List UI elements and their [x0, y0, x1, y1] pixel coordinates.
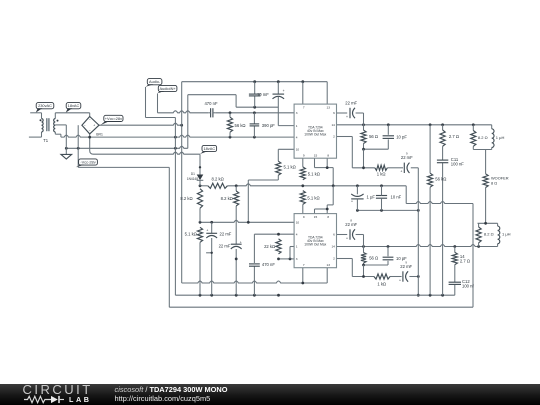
- label 56k input: [235, 123, 246, 128]
- junction BR1 bottom y137: [88, 136, 91, 139]
- svg-text:5.1 kΩ: 5.1 kΩ: [307, 195, 319, 200]
- label C12: [462, 279, 474, 289]
- svg-text:22 mF: 22 mF: [401, 155, 413, 160]
- wire stby y222.3: [200, 220, 294, 222]
- label 14 2.7ohm: [460, 254, 470, 263]
- inductor 1uH block1: [492, 129, 494, 148]
- label 22mF bootstrap1: [345, 100, 357, 105]
- svg-text:D1: D1: [191, 172, 195, 176]
- wire IC1 pin15 jog: [315, 158, 328, 167]
- junction output2 dots: [362, 245, 480, 248]
- resistor 56k fb: [428, 173, 433, 187]
- svg-text:4: 4: [296, 232, 298, 236]
- svg-text:8.2 kΩ: 8.2 kΩ: [221, 196, 233, 201]
- label 5.1k b: [308, 171, 320, 176]
- transformer T1 secondary coil: [54, 119, 56, 132]
- capacitor 470nF input: [208, 108, 215, 117]
- capacitor electrolytic filter: [273, 89, 285, 99]
- capacitor 10pF zobel2: [383, 257, 394, 260]
- wire +Vcc x181.7 to bus1: [181, 125, 183, 283]
- svg-text:2: 2: [333, 135, 335, 139]
- wire stby col2: [199, 242, 201, 295]
- capacitor 22mF fb1: [400, 163, 409, 174]
- cap22a minus dash: [206, 252, 213, 254]
- label 1uH block2: [502, 232, 511, 237]
- junction mute rail: [199, 184, 383, 187]
- capacitor 22mF bootstrap2: [346, 229, 355, 240]
- label 22mF fb2: [400, 261, 412, 269]
- resistor 8.2ohm block2: [476, 227, 481, 243]
- svg-text:100 nF: 100 nF: [451, 162, 464, 167]
- wire gnd y148: [66, 95, 188, 149]
- wire zobel2b col: [454, 247, 456, 296]
- wire input y112.8 left: [158, 111, 209, 113]
- flag 18vAC D1: [200, 145, 217, 154]
- wire ground bus y137: [61, 135, 294, 137]
- flag -Vcc-28v: [76, 159, 98, 167]
- svg-text:56 Ω: 56 Ω: [369, 256, 378, 261]
- wire bus3 -Vcc: [169, 306, 473, 308]
- svg-text:Audio-: Audio-: [149, 79, 161, 84]
- svg-text:T1: T1: [43, 138, 49, 143]
- svg-text:5.1 kΩ: 5.1 kΩ: [284, 164, 296, 169]
- label 1k fb2: [377, 281, 386, 286]
- wire caps-neg y94.7: [188, 95, 236, 108]
- svg-text:8.2 kΩ: 8.2 kΩ: [211, 177, 223, 182]
- label 470nF gnd2: [262, 262, 275, 267]
- svg-text:100W Out Max: 100W Out Max: [304, 133, 326, 137]
- ground: [61, 125, 72, 159]
- label 1uH block1: [496, 135, 505, 140]
- svg-text:14: 14: [331, 245, 335, 249]
- wire bootstrap1: [337, 113, 364, 125]
- resistor 5.1k a: [276, 161, 281, 175]
- svg-text:9: 9: [303, 215, 305, 219]
- svg-text:13: 13: [326, 263, 330, 267]
- wire IC2 pin3 row: [279, 258, 295, 260]
- junction ref node: [356, 209, 420, 212]
- capacitor 22mF bootstrap1: [346, 108, 355, 119]
- svg-text:+: +: [283, 89, 285, 93]
- wire fcap1 col: [254, 82, 256, 108]
- junction bus1 pin7: [301, 282, 304, 285]
- svg-text:3: 3: [296, 111, 298, 115]
- svg-text:1 kΩ: 1 kΩ: [377, 171, 386, 176]
- wire secondary center tap: [55, 124, 66, 126]
- wire -Vcc corner to bus3: [168, 167, 170, 307]
- wire 390p col: [253, 113, 255, 137]
- junction fb2: [362, 275, 420, 278]
- svg-text:56 kΩ: 56 kΩ: [435, 177, 446, 182]
- label 8.2k horizontal: [211, 177, 223, 182]
- junction fb1: [362, 166, 365, 169]
- wire 230vAC stub: [30, 113, 41, 119]
- junction pin3 row: [277, 258, 291, 261]
- resistor 8.2k D1: [197, 189, 202, 209]
- label 1k fb1: [377, 171, 386, 176]
- junction rail dots: [253, 80, 304, 83]
- wire -Vs jog right: [406, 186, 473, 307]
- label 8.2k stby: [221, 196, 233, 201]
- capacitor 470nF gnd2: [249, 264, 260, 266]
- svg-text:10: 10: [296, 148, 300, 152]
- wire zobel1 to fb: [363, 149, 365, 168]
- resistor 8.2k stby: [234, 191, 239, 206]
- svg-text:56 Ω: 56 Ω: [369, 134, 378, 139]
- wire +Vcc top rail y81.7: [182, 82, 328, 126]
- svg-text:470 nF: 470 nF: [204, 101, 217, 106]
- flag +Vcc=28v: [101, 115, 123, 125]
- wire +Vcc from BR1: [99, 123, 182, 125]
- wire secondary top: [55, 113, 89, 119]
- transformer T1 core: [47, 118, 49, 131]
- wire stby col: [199, 208, 201, 222]
- flag AudioIN+: [158, 85, 177, 93]
- svg-text:5.1 kΩ: 5.1 kΩ: [308, 171, 320, 176]
- junction gnd y148: [65, 147, 177, 150]
- capacitor 10pF zobel1: [383, 136, 394, 139]
- svg-text:56 kΩ: 56 kΩ: [235, 123, 246, 128]
- wire IC2 pin9 rise: [302, 204, 304, 213]
- op-amp U1 TDA7294: [294, 104, 336, 158]
- svg-text:1: 1: [296, 245, 298, 249]
- resistor 5.1k c: [300, 191, 305, 205]
- svg-text:100W Out Max: 100W Out Max: [304, 243, 326, 247]
- transformer T1 primary coil: [42, 119, 44, 132]
- svg-text:1 μF: 1 μF: [367, 195, 376, 200]
- capacitor 22mF stby: [206, 229, 217, 238]
- svg-text:~: ~: [89, 129, 91, 133]
- label 8.2ohm block1: [478, 135, 488, 140]
- junction block2 top: [484, 222, 487, 225]
- resistor 56ohm zobel2: [361, 253, 366, 264]
- svg-text:5.1 kΩ: 5.1 kΩ: [185, 231, 197, 236]
- svg-text:+: +: [346, 236, 348, 240]
- svg-text:7: 7: [303, 105, 305, 109]
- svg-text:15: 15: [314, 215, 318, 219]
- flag Audio-: [146, 79, 162, 87]
- svg-text:22 mF: 22 mF: [345, 100, 357, 105]
- wire output1 y124.8: [337, 124, 492, 126]
- label 390pF: [262, 123, 275, 128]
- wire AudioIN+ drop: [157, 94, 159, 113]
- wire IC2 pin1 strap: [290, 247, 294, 259]
- capacitor 10mF filter: [249, 94, 261, 96]
- wire input y112.8 right: [215, 112, 294, 114]
- label 5.1k stby: [185, 231, 197, 236]
- wire IC1 pin1 row: [278, 97, 294, 126]
- label C11: [451, 157, 464, 167]
- wire IC2 pin15 jog: [315, 209, 328, 214]
- capacitor C12 100nF: [449, 282, 461, 284]
- wire zobel2 to fb: [363, 265, 365, 277]
- wire IC1 pin10 row: [278, 149, 294, 161]
- wire IC2 pin4 row: [254, 234, 294, 263]
- label 56k fb: [435, 177, 446, 182]
- junction y137 x175: [174, 136, 177, 139]
- label 22mF mute: [219, 243, 231, 248]
- resistor 5.1k stby: [197, 227, 202, 242]
- junction stby: [199, 221, 250, 224]
- svg-text:14: 14: [331, 123, 335, 127]
- wire IC2 pin2 fb: [337, 259, 353, 277]
- bridge rectifier BR1: [82, 117, 99, 134]
- wire 18vAC-D1 y154.2: [94, 152, 200, 154]
- capacitor C11 100nF: [437, 160, 448, 163]
- label BR1: [96, 133, 103, 137]
- label 8.2k D1: [180, 196, 192, 201]
- wire bootstrap2: [337, 235, 364, 247]
- resistor 2.7ohm zobel2b: [452, 252, 457, 264]
- svg-text:2.7 Ω: 2.7 Ω: [449, 134, 459, 139]
- junction output1 dots: [362, 123, 475, 126]
- svg-text:18vAC: 18vAC: [203, 146, 215, 151]
- svg-text:15: 15: [314, 153, 318, 157]
- wire 56k1 col: [229, 113, 231, 137]
- svg-text:+: +: [346, 115, 348, 119]
- svg-text:9: 9: [303, 153, 305, 157]
- label 22mF fb1: [401, 152, 413, 160]
- wire caps bottom y107.2: [236, 106, 278, 108]
- wire fb1 y167.8: [352, 167, 418, 169]
- svg-text:−: −: [84, 123, 86, 127]
- label 2.7ohm: [449, 134, 459, 139]
- footer title text: [115, 386, 228, 404]
- wire block1 legs: [473, 125, 491, 150]
- wire 56k col: [429, 125, 431, 295]
- wire woofer col: [485, 150, 487, 224]
- label 56ohm zobel1: [369, 134, 378, 139]
- svg-text:4: 4: [296, 135, 298, 139]
- wire BR1 minus drop: [77, 125, 79, 167]
- resistor 56ohm zobel1: [361, 130, 366, 143]
- svg-text:1N4148: 1N4148: [187, 177, 198, 181]
- label T1: [43, 138, 49, 143]
- label 10pF zobel2: [396, 256, 407, 261]
- wire IC1 pin8 drop: [327, 158, 333, 186]
- wire IC2 pin8 rise: [327, 186, 333, 214]
- svg-text:+: +: [351, 200, 353, 204]
- svg-text:18vAC: 18vAC: [68, 103, 80, 108]
- svg-text:470 nF: 470 nF: [262, 262, 275, 267]
- label 10pF zobel1: [396, 134, 407, 139]
- resistor speaker WOOFER: [483, 174, 488, 188]
- svg-text:22 mF: 22 mF: [400, 264, 412, 269]
- op-amp U2 TDA7294: [294, 214, 336, 268]
- capacitor 22mF fb2: [399, 271, 408, 282]
- wire D1 column top: [199, 154, 201, 174]
- junction d1 vcc: [199, 166, 201, 168]
- junction bus2 dots: [199, 294, 444, 297]
- svg-text:8: 8: [327, 215, 329, 219]
- label D1: [187, 172, 198, 181]
- svg-text:+: +: [399, 278, 401, 282]
- wire fb2 y276.5: [352, 276, 418, 278]
- wire mute rail y185.8: [200, 185, 208, 187]
- junction input x230 x254: [229, 111, 256, 114]
- label 22mF bootstrap2: [345, 218, 357, 227]
- svg-text:BR1: BR1: [96, 133, 103, 137]
- svg-text:7: 7: [303, 263, 305, 267]
- wire zobel1b col: [442, 125, 444, 295]
- diode D1 1N4148: [197, 175, 204, 181]
- svg-text:22 mF: 22 mF: [220, 232, 232, 237]
- wire output2 y246.5: [337, 245, 498, 247]
- wire D1 column mid: [199, 180, 201, 186]
- wire Audio- route: [146, 87, 176, 118]
- wire IC2 pin13 drop: [326, 267, 328, 283]
- wire -Vcc y167.4: [78, 166, 169, 168]
- wire ref node y210.4: [357, 209, 418, 211]
- svg-text:10 nF: 10 nF: [391, 195, 402, 200]
- resistor 22k: [276, 239, 281, 254]
- junction IC1 pin8: [326, 166, 329, 169]
- junction zobel2: [362, 264, 365, 267]
- junction fb gnd: [417, 294, 420, 297]
- svg-text:230vAC: 230vAC: [38, 103, 52, 108]
- label 470nF input: [204, 101, 217, 106]
- wire zobel1 mid: [364, 125, 389, 149]
- wire Audio- down to bus2: [174, 118, 176, 296]
- wire IC1 pin13 drop: [326, 82, 328, 104]
- wire BR1 bottom drop: [90, 134, 94, 154]
- label 5.1k a: [284, 164, 296, 169]
- svg-text:8.2 kΩ: 8.2 kΩ: [180, 196, 192, 201]
- svg-text:AudioIN+: AudioIN+: [160, 86, 177, 91]
- wire IC1 pin9 drop: [302, 158, 304, 167]
- wire cap22a col: [211, 222, 213, 295]
- svg-text:8 Ω: 8 Ω: [491, 181, 497, 186]
- junction y137 x230: [229, 136, 256, 139]
- svg-text:~: ~: [89, 118, 91, 122]
- label 10mF: [257, 92, 269, 97]
- svg-text:6: 6: [333, 233, 335, 237]
- capacitor 390pF: [250, 124, 260, 126]
- svg-text:1 μH: 1 μH: [502, 232, 511, 237]
- svg-text:+: +: [400, 170, 402, 174]
- flag 230vAC: [36, 103, 54, 113]
- junction +Vcc x181.7: [180, 124, 183, 127]
- CircuitLab logo: [22, 385, 96, 404]
- svg-text:6: 6: [333, 111, 335, 115]
- wire 82k3 col: [235, 186, 237, 295]
- svg-text:+: +: [240, 240, 242, 244]
- svg-text:2.7 Ω: 2.7 Ω: [460, 259, 470, 264]
- flag 18vAC T1: [66, 103, 81, 113]
- svg-text:100 nf: 100 nf: [462, 284, 474, 289]
- svg-text:13: 13: [326, 105, 330, 109]
- label 5.1k c: [307, 195, 319, 200]
- svg-text:2: 2: [333, 257, 335, 261]
- svg-text:10: 10: [296, 221, 300, 225]
- junction x236 y258.9: [235, 258, 238, 261]
- wire fcap2 col: [277, 82, 279, 94]
- wire 470n2 col: [253, 266, 255, 295]
- capacitor 1uF ref: [351, 186, 364, 211]
- capacitor 10nF ref: [376, 186, 387, 211]
- wire IC2 pin7 drop: [302, 267, 304, 283]
- svg-text:+: +: [93, 123, 95, 127]
- wire bus1 +Vcc: [182, 281, 328, 283]
- label 56ohm zobel2: [369, 256, 378, 261]
- wire fb caps gnd drop: [417, 168, 419, 295]
- label 1uF: [367, 195, 376, 200]
- resistor 5.1k b: [300, 167, 305, 180]
- svg-text:22 mF: 22 mF: [219, 243, 231, 248]
- svg-text:+: +: [206, 229, 208, 233]
- resistor 8.2ohm block1: [471, 131, 476, 147]
- svg-text:3: 3: [296, 257, 298, 261]
- inductor 1uH block2: [498, 226, 500, 244]
- svg-text:8.2 Ω: 8.2 Ω: [478, 135, 488, 140]
- svg-text:390 pF: 390 pF: [262, 123, 275, 128]
- label 10nF: [391, 195, 402, 200]
- wire IC1 pin2 fb: [337, 137, 353, 168]
- svg-text:1 kΩ: 1 kΩ: [377, 281, 386, 286]
- svg-text:8: 8: [327, 153, 329, 157]
- svg-text:-Vcc-28v: -Vcc-28v: [80, 160, 95, 165]
- svg-text:10 mF: 10 mF: [257, 92, 269, 97]
- wire 5.1k1 bottom: [248, 175, 278, 222]
- svg-text:+Vcc=28v: +Vcc=28v: [105, 116, 122, 121]
- svg-text:22 kΩ: 22 kΩ: [264, 244, 275, 249]
- svg-text:1: 1: [296, 124, 298, 128]
- junction y107.2: [253, 106, 256, 109]
- junction IC2 pin8: [326, 208, 329, 211]
- resistor 1k fb1: [375, 165, 387, 170]
- resistor 2.7ohm zobel1b: [440, 130, 445, 146]
- junction pin4 row: [277, 233, 280, 236]
- wire IC1 pin7 drop: [302, 82, 304, 104]
- wire secondary bottom jog: [55, 132, 61, 137]
- resistor 56k input: [227, 117, 232, 132]
- svg-text:22 mF: 22 mF: [345, 222, 357, 227]
- svg-text:10 pF: 10 pF: [396, 134, 407, 139]
- transformer T1 phase dots: [40, 119, 59, 121]
- resistor 1k fb2: [374, 274, 390, 279]
- resistor 8.2k-22mF cap2: [231, 240, 242, 249]
- label 22mF stby: [220, 232, 232, 237]
- svg-text:8.2 Ω: 8.2 Ω: [484, 232, 494, 237]
- label 8.2ohm block2: [484, 232, 494, 237]
- resistor 8.2k horizontal: [208, 183, 228, 188]
- svg-text:1 μH: 1 μH: [496, 135, 505, 140]
- wire primary bottom: [29, 132, 42, 137]
- wire bus2 ground: [175, 294, 454, 296]
- junction zobel1: [362, 148, 365, 151]
- wire zobel2 mid: [364, 247, 389, 266]
- wire block2 rails: [478, 223, 498, 246]
- wire mute rail y185.8 b: [227, 184, 406, 186]
- label WOOFER: [491, 176, 509, 186]
- label 22k: [264, 244, 275, 249]
